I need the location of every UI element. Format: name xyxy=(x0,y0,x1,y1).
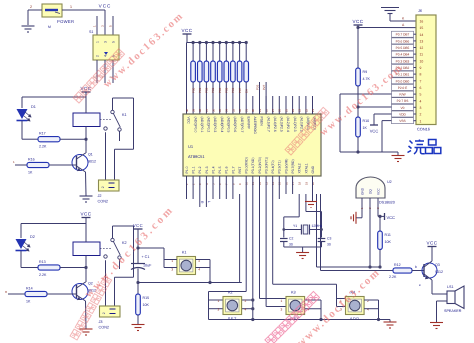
svg-text:31: 31 xyxy=(245,108,249,112)
svg-text:27: 27 xyxy=(271,108,275,112)
resistor R12 2.2K xyxy=(393,268,412,273)
capacitor C3 30 xyxy=(318,238,326,240)
svg-text:XTAL2: XTAL2 xyxy=(298,163,302,173)
svg-text:33: 33 xyxy=(231,108,235,112)
svg-text:VCC: VCC xyxy=(99,4,112,9)
svg-text:b: b xyxy=(415,265,417,269)
wire xyxy=(164,259,177,261)
svg-text:30: 30 xyxy=(289,243,293,247)
relay switch K5 xyxy=(113,225,134,227)
svg-text:P3.1(TXD): P3.1(TXD) xyxy=(251,157,255,173)
ground xyxy=(22,26,35,32)
svg-text:D2: D2 xyxy=(30,235,35,239)
label LCD (liquid crystal) xyxy=(408,140,441,155)
svg-text:2: 2 xyxy=(101,186,105,188)
wire P3.0 xyxy=(245,176,247,292)
wire xyxy=(364,299,378,301)
resistor network R2 xyxy=(198,41,201,44)
svg-text:K3: K3 xyxy=(291,291,296,295)
svg-text:1K: 1K xyxy=(363,126,368,130)
svg-text:10uF: 10uF xyxy=(143,264,152,268)
svg-text:R12: R12 xyxy=(394,263,401,267)
svg-text:R9: R9 xyxy=(363,70,368,74)
ground key bus xyxy=(384,322,397,328)
svg-text:P0.4 DB4: P0.4 DB4 xyxy=(396,53,410,57)
svg-text:21: 21 xyxy=(311,108,315,112)
wire xyxy=(105,132,107,180)
resistor R10 1K xyxy=(356,117,361,137)
U1 top pin 22 xyxy=(305,96,307,114)
svg-text:P0.7 DB7: P0.7 DB7 xyxy=(396,33,410,37)
wire xyxy=(20,251,22,268)
switch S1 xyxy=(93,35,119,60)
resistor R11 10K xyxy=(379,216,381,231)
svg-text:P3.2(INT0): P3.2(INT0) xyxy=(258,157,262,174)
ground speaker xyxy=(430,323,443,329)
svg-text:10K: 10K xyxy=(385,240,392,244)
svg-text:9012: 9012 xyxy=(88,160,96,164)
connector J3 CON2 xyxy=(100,306,121,317)
resistor R9 4.7K xyxy=(356,68,361,86)
svg-text:EA/VPP: EA/VPP xyxy=(246,117,250,130)
wire xyxy=(22,96,86,98)
ground Q2 xyxy=(80,329,93,335)
svg-text:5: 5 xyxy=(111,41,115,43)
svg-text:P1.1: P1.1 xyxy=(192,166,196,173)
wire P3.5 stub xyxy=(278,176,280,199)
svg-text:P02: P02 xyxy=(205,87,209,93)
svg-text:(A15)P2.7: (A15)P2.7 xyxy=(266,117,270,132)
wire ground bus LCD xyxy=(340,151,398,153)
svg-text:1K: 1K xyxy=(28,171,33,175)
svg-text:(AD6)P0.6: (AD6)P0.6 xyxy=(233,117,237,133)
ground K line xyxy=(381,8,399,14)
wire xyxy=(62,9,105,11)
svg-text:Q1: Q1 xyxy=(88,153,93,157)
resistor network R4 xyxy=(211,41,214,44)
svg-text:(AD1)P0.1: (AD1)P0.1 xyxy=(200,117,204,133)
wire net P27 xyxy=(265,82,267,114)
svg-text:3: 3 xyxy=(420,106,422,110)
svg-text:37: 37 xyxy=(205,108,209,112)
svg-text:24: 24 xyxy=(291,108,295,112)
node VCC relay B xyxy=(82,217,91,219)
wire P1.6 stub xyxy=(225,176,227,199)
svg-text:3: 3 xyxy=(103,41,107,43)
ground LCD xyxy=(392,156,405,162)
svg-text:1: 1 xyxy=(218,299,220,303)
wire K2 pushbutton connections xyxy=(209,299,224,301)
LED D1 xyxy=(17,109,28,119)
svg-text:ALE/PROG: ALE/PROG xyxy=(253,117,257,135)
U1 top pin 24 xyxy=(292,96,294,114)
wire xyxy=(283,242,285,248)
wire P1.5 stub xyxy=(219,176,221,199)
svg-text:P1.6: P1.6 xyxy=(225,166,229,173)
svg-text:U1: U1 xyxy=(188,144,194,149)
svg-text:K1: K1 xyxy=(182,251,187,255)
wire xyxy=(28,9,42,11)
wire xyxy=(85,97,87,113)
svg-text:P0.5 DB5: P0.5 DB5 xyxy=(396,46,410,50)
svg-text:10: 10 xyxy=(420,59,424,63)
svg-text:12MHz: 12MHz xyxy=(312,224,323,228)
svg-text:18: 18 xyxy=(298,181,302,185)
transistor Q3 9012 xyxy=(422,263,437,278)
svg-text:P04: P04 xyxy=(218,87,222,93)
svg-text:3: 3 xyxy=(281,307,283,311)
svg-text:(AD4)P0.4: (AD4)P0.4 xyxy=(220,117,224,133)
svg-text:4: 4 xyxy=(367,307,369,311)
svg-text:DQ: DQ xyxy=(369,189,373,194)
wire RST xyxy=(239,194,241,283)
node VCC xyxy=(183,33,192,35)
svg-text:R17: R17 xyxy=(39,132,46,136)
svg-text:2: 2 xyxy=(102,312,106,314)
svg-text:P1.0: P1.0 xyxy=(185,166,189,173)
resistor network R8 xyxy=(238,41,241,44)
wire to DS18B20 DQ xyxy=(316,194,318,267)
svg-text:P07: P07 xyxy=(238,87,242,93)
pushbutton K1 (reset) xyxy=(177,257,196,275)
wire net P26 xyxy=(259,82,261,114)
wire xyxy=(305,299,321,301)
svg-text:CON2: CON2 xyxy=(98,200,109,204)
wire A line xyxy=(358,27,416,29)
wire xyxy=(105,260,107,306)
svg-text:(AD3)P0.3: (AD3)P0.3 xyxy=(213,117,217,133)
svg-text:39: 39 xyxy=(192,108,196,112)
watermark CJK bottom-center xyxy=(265,291,320,343)
wire P1.7 stub xyxy=(232,176,234,199)
wire xyxy=(431,280,433,294)
wire xyxy=(361,198,363,218)
relay coil A xyxy=(73,113,100,127)
svg-text:26: 26 xyxy=(278,108,282,112)
svg-text:19: 19 xyxy=(304,181,308,185)
ground DS18B20 (sideways) xyxy=(356,217,362,219)
wire xyxy=(85,301,88,329)
svg-text:1: 1 xyxy=(420,119,422,123)
svg-text:P0.0 DB0: P0.0 DB0 xyxy=(396,79,410,83)
wire xyxy=(85,172,88,196)
svg-text:6: 6 xyxy=(420,86,422,90)
wire P1.2 stub xyxy=(199,176,201,199)
svg-text:GND: GND xyxy=(311,165,315,173)
ground R15 xyxy=(132,325,145,331)
svg-text:(A12)P2.4: (A12)P2.4 xyxy=(286,117,290,132)
svg-text:16: 16 xyxy=(420,20,424,24)
resistor R17 2.2K xyxy=(38,137,60,142)
svg-text:7: 7 xyxy=(420,79,422,83)
ground Q1 xyxy=(80,196,93,202)
ground U1 GND pin20 xyxy=(312,176,314,201)
wire P1.3 stub xyxy=(205,176,207,199)
wire P3.4 xyxy=(272,176,274,284)
svg-text:25: 25 xyxy=(284,108,288,112)
svg-text:CON16: CON16 xyxy=(417,127,430,132)
svg-text:2: 2 xyxy=(367,299,369,303)
svg-text:1K: 1K xyxy=(26,300,31,304)
svg-text:(AD2)P0.2: (AD2)P0.2 xyxy=(207,117,211,133)
resistor network R5 xyxy=(218,41,221,44)
svg-text:P1.5: P1.5 xyxy=(218,166,222,173)
svg-text:L: L xyxy=(207,201,211,203)
connector J6 CON16 xyxy=(416,15,436,125)
svg-text:XTAL1: XTAL1 xyxy=(304,163,308,173)
U1 top pin 23 xyxy=(298,96,300,114)
connector J2 CON2 xyxy=(99,180,120,191)
svg-text:1: 1 xyxy=(281,299,283,303)
svg-text:3: 3 xyxy=(218,307,220,311)
svg-text:12: 12 xyxy=(420,46,424,50)
svg-text:(A13)P2.5: (A13)P2.5 xyxy=(280,117,284,132)
svg-text:P0.6 DB6: P0.6 DB6 xyxy=(396,39,410,43)
wire xyxy=(96,16,98,35)
svg-text:LS1: LS1 xyxy=(447,285,454,289)
svg-text:13: 13 xyxy=(420,40,424,44)
svg-text:10K: 10K xyxy=(143,303,150,307)
svg-text:P3.6(WR): P3.6(WR) xyxy=(284,159,288,174)
svg-text:VCC: VCC xyxy=(181,28,192,33)
svg-text:K1: K1 xyxy=(122,113,127,117)
svg-text:P3.3(INT1): P3.3(INT1) xyxy=(265,157,269,174)
svg-text:34: 34 xyxy=(225,108,229,112)
wire xyxy=(283,217,285,238)
svg-text:Q3: Q3 xyxy=(435,263,440,267)
node VCC relay A xyxy=(82,91,91,93)
svg-text:2: 2 xyxy=(95,55,99,57)
svg-text:5: 5 xyxy=(420,93,422,97)
wire P3.7 stub xyxy=(292,176,294,194)
wire xyxy=(138,247,164,249)
wire RST bus xyxy=(138,282,242,284)
node VCC DS18B20 xyxy=(378,215,384,217)
relay switch K1 xyxy=(113,97,134,99)
svg-text:30: 30 xyxy=(327,243,331,247)
node VCC reset xyxy=(134,228,143,230)
wire P3.6 stub xyxy=(285,176,287,194)
svg-text:(AD7)P0.7: (AD7)P0.7 xyxy=(240,117,244,133)
svg-text:P1.3: P1.3 xyxy=(205,166,209,173)
sensor U2 DS18B20 xyxy=(356,177,385,198)
svg-text:P1.2: P1.2 xyxy=(198,166,202,173)
wire xyxy=(96,60,98,83)
svg-text:EA: EA xyxy=(244,89,248,93)
ground crystal xyxy=(296,253,309,259)
capacitor C1 10uF xyxy=(131,263,145,265)
connector J1 POWER xyxy=(42,4,62,17)
svg-text:38: 38 xyxy=(198,108,202,112)
U1 top pin 26 xyxy=(278,96,280,114)
svg-text:S1: S1 xyxy=(89,30,93,34)
wire xyxy=(21,223,86,225)
svg-text:VDD: VDD xyxy=(399,113,406,117)
resistor network R9 xyxy=(245,41,248,44)
svg-text:+ C1: + C1 xyxy=(142,255,150,259)
wire XTAL1 xyxy=(305,194,307,212)
svg-text:15: 15 xyxy=(420,26,424,30)
svg-text:2.2K: 2.2K xyxy=(389,275,397,279)
svg-text:CON2: CON2 xyxy=(99,326,110,330)
svg-text:32: 32 xyxy=(238,108,242,112)
resistor network R7 xyxy=(231,41,234,44)
watermark CJK top-left xyxy=(73,49,124,103)
svg-text:VCC: VCC xyxy=(133,223,143,228)
wire V0 xyxy=(358,106,392,108)
wire xyxy=(357,86,359,117)
svg-text:2: 2 xyxy=(420,113,422,117)
wire xyxy=(412,270,424,272)
svg-text:P01: P01 xyxy=(198,87,202,93)
wire xyxy=(85,224,87,243)
node VCC VDD xyxy=(370,124,378,126)
wire xyxy=(60,267,86,269)
wire xyxy=(186,43,188,115)
wire xyxy=(60,138,86,140)
svg-text:23: 23 xyxy=(298,108,302,112)
svg-text:R11: R11 xyxy=(385,233,391,237)
svg-text:40: 40 xyxy=(185,108,189,112)
pushbutton K4 ADD xyxy=(346,297,365,315)
svg-text:9012: 9012 xyxy=(435,270,443,274)
svg-text:R13: R13 xyxy=(39,260,46,264)
svg-text:R15: R15 xyxy=(143,296,150,300)
crystal Y1 12MHz xyxy=(284,229,301,231)
svg-text:2: 2 xyxy=(30,5,32,9)
speaker LS1 xyxy=(447,291,455,304)
svg-text:(A14)P2.6: (A14)P2.6 xyxy=(273,117,277,132)
svg-text:R14: R14 xyxy=(26,287,33,291)
resistor network R6 xyxy=(225,41,228,44)
capacitor C2 30 xyxy=(280,238,288,240)
svg-text:22: 22 xyxy=(304,108,308,112)
svg-text:K2: K2 xyxy=(228,291,233,295)
U1 top pin 28 xyxy=(265,96,267,114)
svg-text:1: 1 xyxy=(95,41,99,43)
svg-text:J2: J2 xyxy=(98,194,102,198)
svg-text:P00: P00 xyxy=(191,87,195,93)
wire VDD xyxy=(374,113,392,115)
transistor Q1 9012 xyxy=(72,155,88,171)
wire xyxy=(21,121,23,139)
svg-text:R10: R10 xyxy=(363,119,370,123)
svg-text:P05: P05 xyxy=(225,87,229,93)
resistor network R1 xyxy=(192,41,195,44)
svg-text:SPEAKER: SPEAKER xyxy=(444,309,462,313)
wire P3.2 xyxy=(259,176,261,299)
svg-text:8: 8 xyxy=(420,73,422,77)
svg-text:AT89C51: AT89C51 xyxy=(188,154,205,159)
svg-text:P3.5(T1): P3.5(T1) xyxy=(278,160,282,173)
svg-text:U2: U2 xyxy=(387,180,392,184)
wire P1.4 stub xyxy=(212,176,214,199)
U1 top pin 21 xyxy=(312,96,314,114)
svg-text:4: 4 xyxy=(420,99,422,103)
transistor Q2 9012 xyxy=(72,284,88,300)
svg-text:36: 36 xyxy=(211,108,215,112)
svg-text:VCC: VCC xyxy=(387,215,396,220)
svg-text:P2.7 RS: P2.7 RS xyxy=(397,99,409,103)
svg-text:Y1: Y1 xyxy=(293,224,297,228)
op-amp U1 AT89C51 body xyxy=(183,114,321,176)
svg-text:2.2K: 2.2K xyxy=(39,145,47,149)
svg-text:VCC: VCC xyxy=(370,129,379,134)
svg-text:4: 4 xyxy=(245,307,247,311)
wire ground bus xyxy=(209,319,391,321)
svg-text:C3: C3 xyxy=(327,237,331,241)
wire to speaker R12 xyxy=(320,194,322,271)
svg-text:K2: K2 xyxy=(122,241,127,245)
svg-text:J3: J3 xyxy=(99,320,103,324)
svg-text:1: 1 xyxy=(70,5,72,9)
svg-text:4.7K: 4.7K xyxy=(363,77,371,81)
U1 top pin 30 xyxy=(252,96,254,114)
wire xyxy=(357,137,359,152)
svg-text:(AD0)P0.0: (AD0)P0.0 xyxy=(193,117,197,133)
svg-text:30: 30 xyxy=(251,108,255,112)
wire RW xyxy=(340,93,392,95)
wire VSS xyxy=(382,120,392,122)
svg-text:R16: R16 xyxy=(28,158,35,162)
relay coil B xyxy=(73,242,100,256)
svg-text:(A11)P2.3: (A11)P2.3 xyxy=(293,117,297,132)
watermark CJK over chip xyxy=(285,107,329,155)
LED D2 xyxy=(16,239,27,249)
svg-text:P03: P03 xyxy=(211,87,215,93)
svg-text:DS18B20: DS18B20 xyxy=(379,201,395,205)
svg-text:14: 14 xyxy=(420,33,424,37)
svg-text:P06: P06 xyxy=(231,87,235,93)
resistor network R3 xyxy=(205,41,208,44)
svg-text:P2.0 E: P2.0 E xyxy=(398,86,408,90)
svg-text:VSS: VSS xyxy=(399,119,405,123)
wire P1.1 stub xyxy=(192,176,194,199)
wire VCC bus xyxy=(187,42,247,44)
svg-text:P27: P27 xyxy=(262,84,266,90)
node VCC LCD xyxy=(354,24,363,26)
svg-text:D1: D1 xyxy=(31,105,36,109)
svg-text:P1.7: P1.7 xyxy=(231,166,235,173)
svg-text:9: 9 xyxy=(420,66,422,70)
wire P1.0 stub xyxy=(186,176,188,199)
svg-text:VCC: VCC xyxy=(377,188,381,195)
svg-text:V0: V0 xyxy=(401,106,405,110)
svg-text:VCC: VCC xyxy=(80,212,91,217)
svg-text:P1.4: P1.4 xyxy=(211,166,215,173)
svg-text:2.2K: 2.2K xyxy=(39,273,47,277)
wire xyxy=(337,298,346,300)
resistor R15 10K xyxy=(137,283,139,295)
svg-text:PSEN: PSEN xyxy=(260,117,264,127)
svg-text:4: 4 xyxy=(103,55,107,57)
node VCC Q3 xyxy=(428,246,437,248)
wire XTAL2 xyxy=(298,194,300,217)
watermark CJK bottom-left xyxy=(70,276,112,340)
svg-text:RST: RST xyxy=(238,167,242,174)
svg-text:P3.7(RD): P3.7(RD) xyxy=(291,159,295,173)
resistor R13 2.2K xyxy=(38,265,60,270)
wire P3.1 xyxy=(252,176,254,320)
svg-text:POWER: POWER xyxy=(57,19,74,24)
svg-text:M: M xyxy=(48,25,51,29)
svg-text:C2: C2 xyxy=(289,237,293,241)
svg-text:P3.4(T0): P3.4(T0) xyxy=(271,160,275,173)
svg-text:e: e xyxy=(419,283,421,287)
svg-text:2: 2 xyxy=(245,299,247,303)
svg-text:35: 35 xyxy=(218,108,222,112)
U1 top pin 25 xyxy=(285,96,287,114)
